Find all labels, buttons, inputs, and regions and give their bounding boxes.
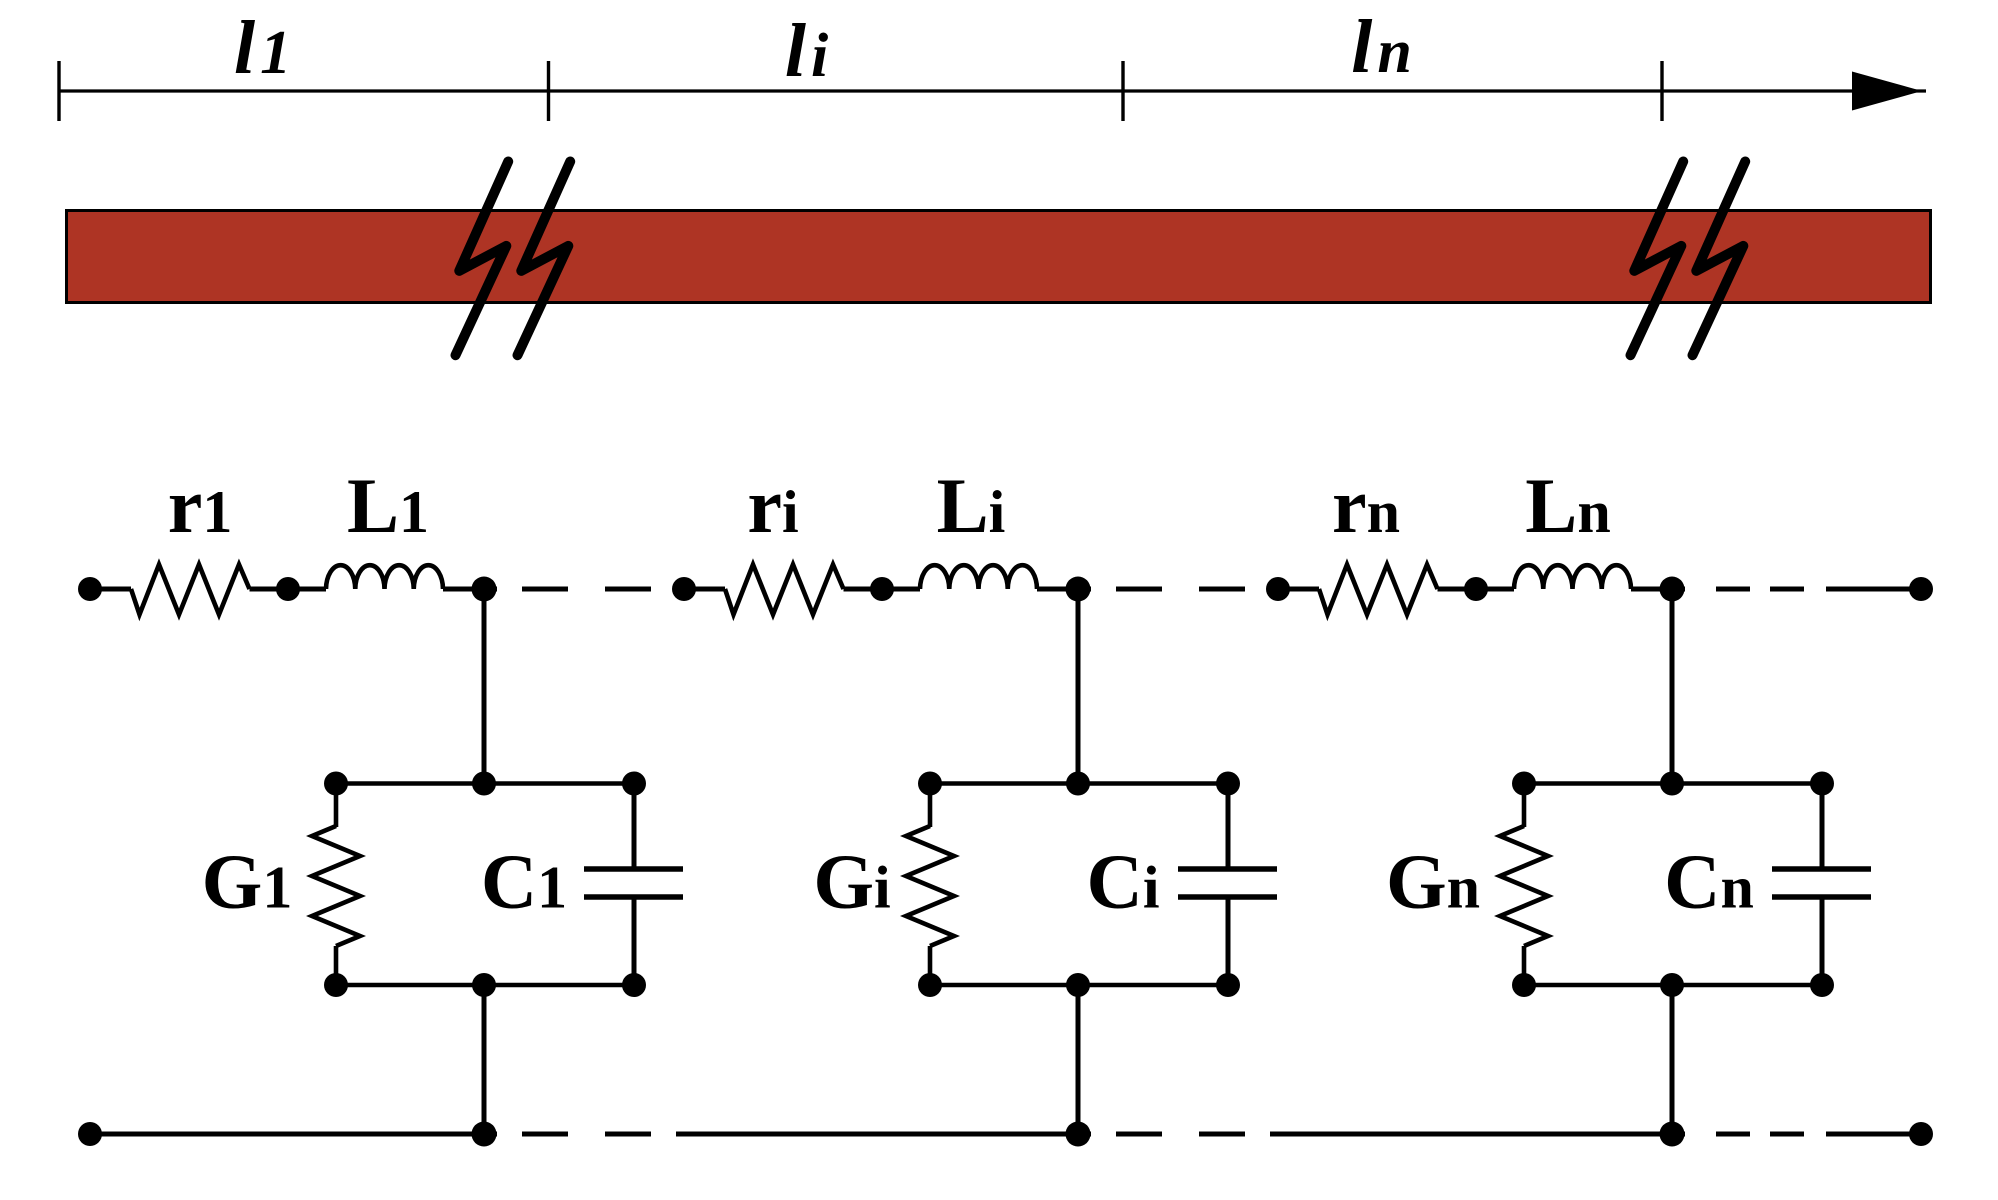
node shunt top-center 1 (472, 772, 496, 796)
wire top rail right end (1826, 587, 1921, 592)
wire bottom rail solid 2 (676, 1132, 1091, 1137)
wire Cn to bottom bar (1820, 899, 1825, 985)
capacitor Cn top plate (1772, 866, 1871, 872)
wire top rail into r1 (90, 587, 131, 592)
node shunt bottom-left i (918, 973, 942, 997)
wire into Cn (1820, 784, 1825, 867)
node right terminal bottom (1909, 1122, 1933, 1146)
resistor G1 (312, 826, 360, 946)
wire node down to shunt i (1076, 589, 1081, 784)
node shunt top-left i (918, 772, 942, 796)
wire into Gn (1522, 784, 1527, 828)
dimension tick 3 (1660, 61, 1663, 121)
resistor r1 (131, 565, 250, 615)
wire shunt i down to bottom rail (1076, 985, 1081, 1134)
node bottom rail section 1 (472, 1122, 497, 1147)
wire top rail into rn (1278, 587, 1319, 592)
node shunt bottom-right i (1216, 973, 1240, 997)
node between ri and Li (870, 577, 894, 601)
wire shunt top bar i (930, 781, 1228, 786)
wire node down to shunt 1 (482, 589, 487, 784)
wire top rail dash (605, 587, 651, 592)
wire bottom rail dash (1770, 1132, 1804, 1137)
dimension tick 0 (57, 61, 60, 121)
wire bottom rail dash (522, 1132, 568, 1137)
wire into G1 (334, 784, 339, 828)
node between rn and Ln (1464, 577, 1488, 601)
wire shunt top bar n (1524, 781, 1822, 786)
node top of shunt section n (1660, 577, 1685, 602)
break mark 1 on bar (456, 162, 509, 356)
node: left terminal dot section 1 (78, 577, 102, 601)
svg-text:li: li (785, 9, 833, 93)
inductor L1 (326, 565, 443, 589)
node between r1 and L1 (276, 577, 300, 601)
resistor Gn (1500, 826, 1548, 946)
dimension arrowhead (1852, 72, 1922, 111)
wire into Ci (1226, 784, 1231, 867)
node shunt top-left n (1512, 772, 1536, 796)
svg-text:l1: l1 (234, 6, 296, 90)
node shunt bottom-right n (1810, 973, 1834, 997)
wire top rail dash (1770, 587, 1804, 592)
node shunt top-right i (1216, 772, 1240, 796)
node: left terminal dot section n (1266, 577, 1290, 601)
wire rn to Ln (1438, 587, 1477, 592)
resistor rn (1319, 565, 1438, 615)
wire shunt bottom bar n (1524, 983, 1822, 988)
node shunt bottom-left 1 (324, 973, 348, 997)
break mark 2 on bar (1631, 162, 1684, 356)
svg-text:ln: ln (1351, 5, 1417, 89)
wire shunt bottom bar 1 (336, 983, 634, 988)
wire shunt top bar 1 (336, 781, 634, 786)
wire bottom rail solid 3 (1270, 1132, 1685, 1137)
capacitor Ci bottom plate (1178, 894, 1277, 900)
resistor Gi (906, 826, 954, 946)
inductor Ln (1514, 565, 1631, 589)
wire top rail dash (1716, 587, 1750, 592)
node bottom rail section i (1066, 1122, 1091, 1147)
node shunt bottom-center 1 (472, 973, 496, 997)
node shunt top-right n (1810, 772, 1834, 796)
wire top rail dash (522, 587, 568, 592)
resistor ri (725, 565, 844, 615)
wire: dimension line (59, 89, 1926, 92)
transmission line bar (67, 211, 1931, 303)
node shunt top-center i (1066, 772, 1090, 796)
wire into Ln (1476, 587, 1514, 592)
wire top rail into ri (684, 587, 725, 592)
dimension tick 1 (547, 61, 550, 121)
wire bottom rail solid 1 (90, 1132, 497, 1137)
wire G1 to bottom bar (334, 946, 339, 985)
node shunt top-left 1 (324, 772, 348, 796)
node bottom rail section n (1660, 1122, 1685, 1147)
wire shunt bottom bar i (930, 983, 1228, 988)
capacitor Ci top plate (1178, 866, 1277, 872)
wire Gi to bottom bar (928, 946, 933, 985)
node right terminal top (1909, 577, 1933, 601)
wire into C1 (632, 784, 637, 867)
wire Ln to node (1631, 587, 1685, 592)
node shunt bottom-center n (1660, 973, 1684, 997)
capacitor C1 top plate (584, 866, 683, 872)
dimension tick 2 (1121, 61, 1124, 121)
node shunt bottom-center i (1066, 973, 1090, 997)
node: left terminal dot section i (672, 577, 696, 601)
node shunt bottom-right 1 (622, 973, 646, 997)
node top of shunt section 1 (472, 577, 497, 602)
wire shunt n down to bottom rail (1670, 985, 1675, 1134)
wire bottom rail dash (1716, 1132, 1750, 1137)
node shunt bottom-left n (1512, 973, 1536, 997)
wire node down to shunt n (1670, 589, 1675, 784)
node top of shunt section i (1066, 577, 1091, 602)
wire ri to Li (844, 587, 883, 592)
wire r1 to L1 (250, 587, 289, 592)
wire into Li (882, 587, 920, 592)
wire L1 to node (443, 587, 497, 592)
wire Gn to bottom bar (1522, 946, 1527, 985)
capacitor C1 bottom plate (584, 894, 683, 900)
wire Ci to bottom bar (1226, 899, 1231, 985)
wire bottom rail right end (1826, 1132, 1921, 1137)
node shunt top-center n (1660, 772, 1684, 796)
wire bottom rail dash (605, 1132, 651, 1137)
wire Li to node (1037, 587, 1091, 592)
node left terminal bottom (78, 1122, 102, 1146)
node shunt top-right 1 (622, 772, 646, 796)
wire bottom rail dash (1199, 1132, 1245, 1137)
inductor Li (920, 565, 1037, 589)
capacitor Cn bottom plate (1772, 894, 1871, 900)
wire into Gi (928, 784, 933, 828)
wire bottom rail dash (1116, 1132, 1162, 1137)
wire C1 to bottom bar (632, 899, 637, 985)
wire top rail dash (1199, 587, 1245, 592)
wire shunt 1 down to bottom rail (482, 985, 487, 1134)
wire into L1 (288, 587, 326, 592)
wire top rail dash (1116, 587, 1162, 592)
